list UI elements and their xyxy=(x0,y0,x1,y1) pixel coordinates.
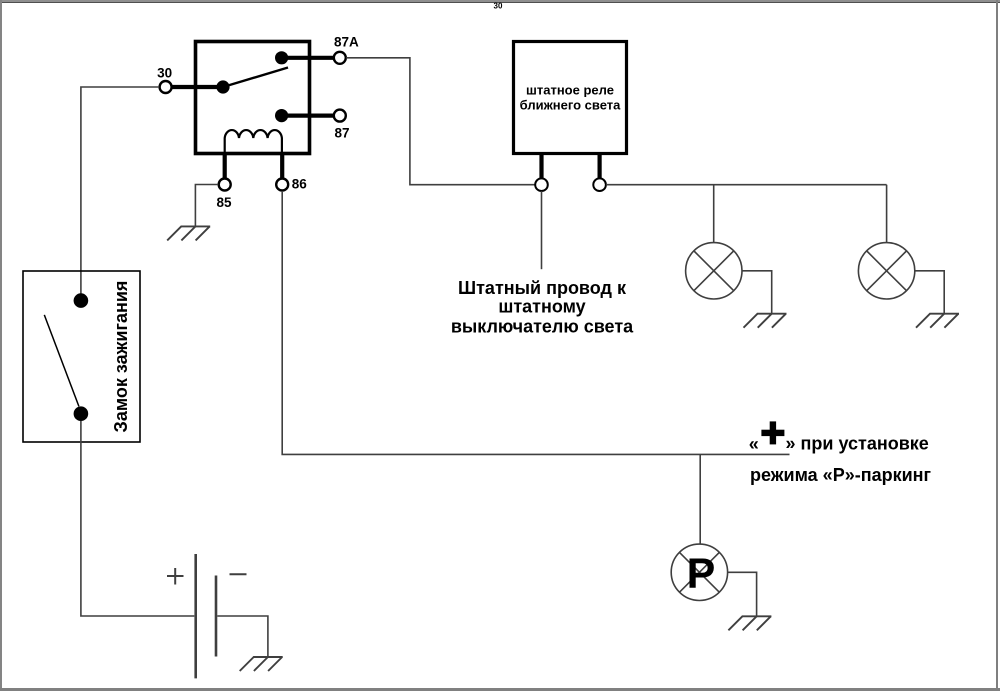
standard relay right terminal xyxy=(593,178,606,191)
ground at battery xyxy=(240,657,283,671)
label «+» при установке: big plus xyxy=(761,421,784,444)
terminal 87 xyxy=(334,110,346,122)
svg-text:» при установке: » при установке xyxy=(786,434,929,454)
ground at lamp 2 xyxy=(916,314,959,328)
P lamp xyxy=(671,544,727,600)
svg-text:штатное реле: штатное реле xyxy=(526,83,614,98)
ignition lock switch blade xyxy=(44,315,79,407)
standard relay left lead xyxy=(539,153,543,179)
standard relay left terminal xyxy=(535,178,548,191)
svg-text:ближнего света: ближнего света xyxy=(520,98,622,113)
svg-text:87A: 87A xyxy=(334,35,359,50)
border frame xyxy=(0,0,1000,2)
ground below 85 xyxy=(167,226,210,240)
svg-text:«: « xyxy=(749,434,759,454)
wire drop to P lamp xyxy=(699,454,701,544)
relay K1 contact dot (pin 87) xyxy=(275,109,288,122)
svg-text:30: 30 xyxy=(494,2,503,11)
wire lamp 2 to ground xyxy=(915,271,945,314)
relay K1 box xyxy=(196,42,310,154)
svg-text:30: 30 xyxy=(157,66,172,81)
battery negative plate xyxy=(215,576,218,657)
relay K1 pin 85 lead xyxy=(223,153,227,179)
battery positive plate xyxy=(194,554,197,678)
relay K1 contact dot (pin 87A) xyxy=(275,51,288,64)
standard relay right lead xyxy=(597,153,601,179)
wire standard relay left terminal down xyxy=(541,191,543,269)
wire standard relay right terminal to lamps xyxy=(606,184,887,186)
ground at lamp 1 xyxy=(744,314,787,328)
terminal 87A xyxy=(334,52,346,64)
terminal 30 xyxy=(160,81,172,93)
wire drop to lamp 1 xyxy=(713,185,715,243)
lamp 1 xyxy=(686,243,742,299)
ignition lock box xyxy=(23,271,140,442)
wire terminal 30 to ignition lock xyxy=(81,87,159,294)
relay K1 common contact dot (pin 30) xyxy=(216,80,229,93)
svg-text:Замок зажигания: Замок зажигания xyxy=(111,281,131,433)
svg-text:выключателю света: выключателю света xyxy=(451,317,634,337)
lamp 2 xyxy=(858,243,914,299)
svg-text:P: P xyxy=(687,550,716,598)
relay K1 pin 86 lead xyxy=(280,153,284,179)
svg-text:Штатный провод к: Штатный провод к xyxy=(458,278,627,298)
relay K1 pin 87A lead xyxy=(282,56,336,60)
wire P lamp to ground xyxy=(728,572,757,616)
terminal 85 xyxy=(219,179,231,191)
wire battery minus to ground xyxy=(217,616,268,657)
wire 87A to standard relay xyxy=(346,58,535,185)
battery plus sign xyxy=(167,568,184,585)
relay K1 pin 30 lead xyxy=(163,85,223,89)
svg-text:86: 86 xyxy=(292,176,308,191)
terminal 86 xyxy=(276,179,288,191)
relay K1 coil xyxy=(225,130,282,155)
standard low-beam relay box xyxy=(514,42,627,154)
relay K1 pin 87 lead xyxy=(282,113,336,117)
svg-text:штатному: штатному xyxy=(498,296,585,316)
wire drop to lamp 2 xyxy=(886,185,888,243)
battery minus sign xyxy=(230,573,247,575)
wire lamp 1 to ground xyxy=(742,271,772,314)
ignition lock top contact dot xyxy=(74,293,89,308)
ignition lock bottom contact dot xyxy=(74,406,89,421)
wire 85 to ground xyxy=(195,185,218,227)
ground at P lamp xyxy=(728,616,771,630)
svg-text:режима «Р»-паркинг: режима «Р»-паркинг xyxy=(750,465,932,485)
wire 86 to parking line xyxy=(282,191,789,454)
relay K1 switch blade xyxy=(223,68,288,88)
wire ignition lock to battery plus xyxy=(81,421,194,616)
svg-text:85: 85 xyxy=(217,195,233,210)
svg-text:87: 87 xyxy=(335,125,350,140)
